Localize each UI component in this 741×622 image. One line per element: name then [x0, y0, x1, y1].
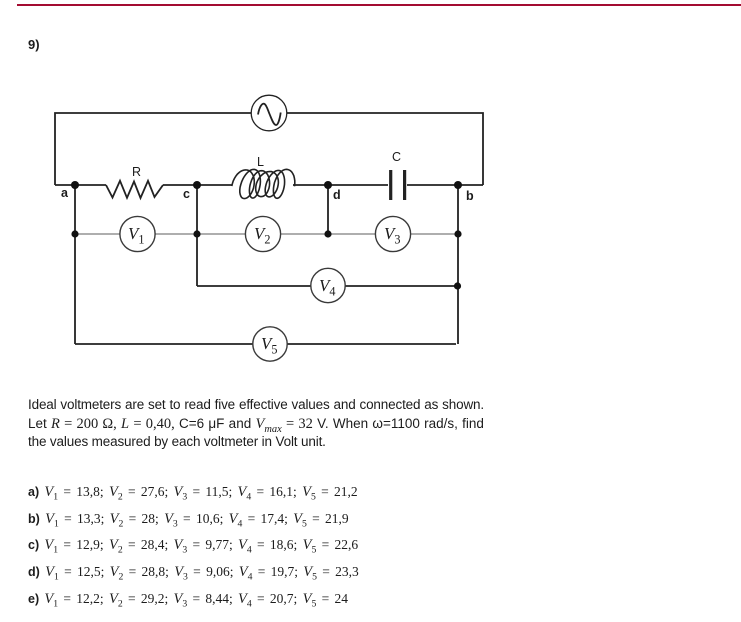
wire: resistor to c [163, 184, 232, 186]
voltmeter V3 [375, 216, 410, 251]
wire: V5 row [75, 343, 456, 345]
voltmeter label V1 [128, 224, 145, 244]
junction dot c-V row [193, 230, 200, 237]
problem statement [28, 396, 484, 452]
wire: a column vertical [74, 185, 76, 344]
resistor R [106, 181, 163, 198]
capacitor C plates [389, 170, 392, 200]
wire: b column vertical [457, 185, 459, 344]
wire: V4 row [197, 285, 458, 287]
option e [28, 591, 348, 608]
option d [28, 564, 359, 581]
node d junction dot [324, 181, 332, 189]
voltmeter V2 [245, 216, 280, 251]
node a junction dot [71, 181, 79, 189]
wire: c column vertical [196, 185, 198, 286]
wire: a to resistor [55, 184, 106, 186]
voltmeter label V5 [261, 334, 278, 354]
header rule [17, 4, 741, 6]
option b [28, 511, 349, 528]
junction dot a-V1 row [71, 230, 78, 237]
voltmeter label V2 [254, 224, 271, 244]
option a [28, 484, 358, 501]
label C [392, 150, 401, 164]
wire: capacitor to right rail [407, 184, 483, 186]
node label a [61, 186, 68, 200]
option c [28, 537, 358, 554]
node c junction dot [193, 181, 201, 189]
voltmeter label V4 [319, 276, 336, 296]
wire: top rail right of source to node b column [287, 113, 483, 185]
problem number 9) [28, 37, 40, 52]
voltmeter V5 [253, 327, 287, 361]
wire: d column vertical [327, 185, 329, 234]
inductor L [232, 169, 295, 198]
wire: voltmeter row V1 V2 V3 [75, 233, 458, 235]
junction dot b-V4 row [454, 282, 461, 289]
node label b [466, 189, 474, 203]
voltmeter V1 [120, 216, 155, 251]
node label d [333, 188, 341, 202]
wire: top-left vertical a to top rail [55, 113, 251, 185]
node label c [183, 187, 190, 201]
AC source [251, 95, 287, 131]
node b junction dot [454, 181, 462, 189]
label L [257, 155, 264, 169]
label R [132, 165, 141, 179]
junction dot b-V row [454, 230, 461, 237]
voltmeter V4 [311, 268, 345, 302]
voltmeter label V3 [384, 224, 401, 244]
wire: inductor to capacitor [293, 184, 388, 186]
junction dot d-V row [324, 230, 331, 237]
